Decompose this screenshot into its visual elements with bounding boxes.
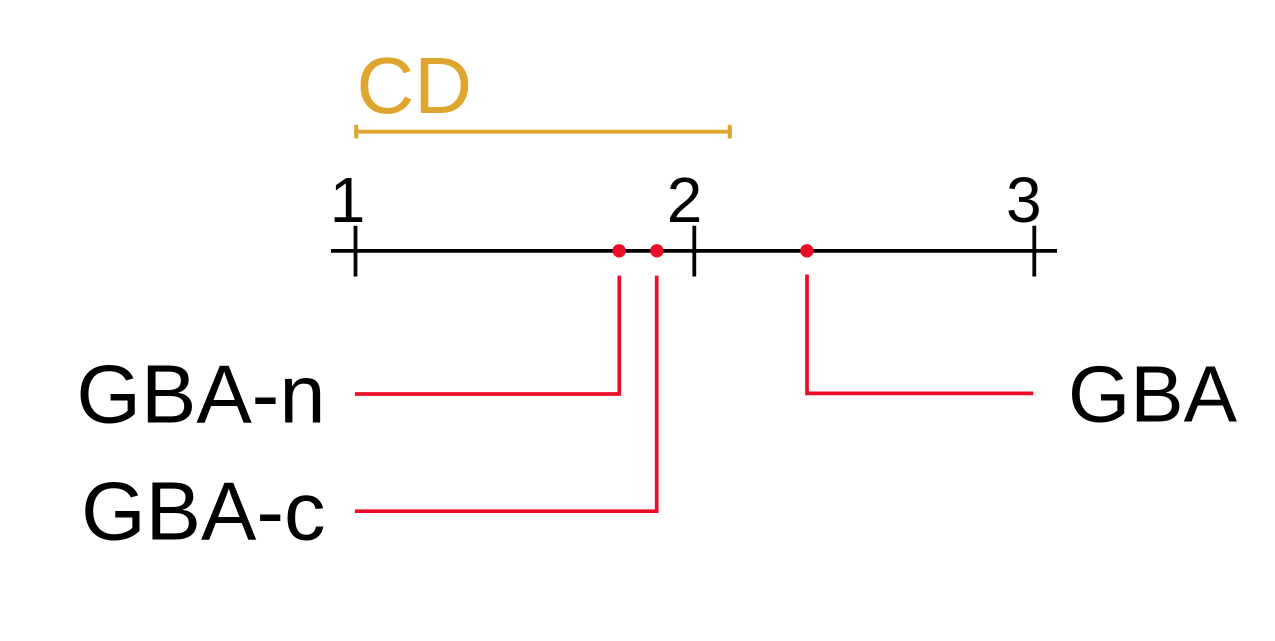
svg-text:CD: CD xyxy=(357,41,473,130)
GBA-n rank dot xyxy=(612,244,625,257)
GBA-n connector line xyxy=(355,276,619,394)
svg-text:2: 2 xyxy=(667,164,703,236)
svg-text:GBA: GBA xyxy=(1068,350,1238,439)
svg-text:3: 3 xyxy=(1006,164,1042,236)
axis tick 2 xyxy=(692,226,696,277)
GBA rank dot xyxy=(800,244,813,257)
svg-text:GBA-n: GBA-n xyxy=(76,348,325,441)
axis line xyxy=(331,249,1057,253)
axis tick 3 xyxy=(1032,226,1036,277)
GBA-c connector line xyxy=(355,276,657,512)
GBA-c rank dot xyxy=(650,244,663,257)
svg-text:1: 1 xyxy=(330,164,366,236)
GBA connector line xyxy=(807,275,1033,394)
svg-text:GBA-c: GBA-c xyxy=(81,465,325,558)
axis tick 1 xyxy=(354,226,358,277)
CD interval bar xyxy=(354,125,732,139)
